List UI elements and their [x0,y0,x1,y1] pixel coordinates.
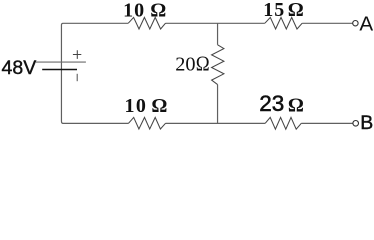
svg-text:Ω: Ω [288,0,304,21]
svg-text:Ω: Ω [196,53,210,76]
resistor R4 zigzag 10 ohm bottom-left [129,117,166,129]
terminal A circle [353,21,358,26]
svg-text:10: 10 [123,0,145,21]
wire bottom from R5 to terminal B [301,122,352,124]
wire top from R2 to terminal A [302,22,352,24]
wire bottom between R4 and R5 through node [166,122,266,124]
resistor R5 zigzag 23 ohm bottom-right [265,117,301,129]
battery V1 bottom plate (negative, short thick) [42,69,77,71]
svg-text:10: 10 [125,95,148,117]
svg-text:A: A [359,12,373,35]
wire top from battery to R1 [63,22,128,24]
wire bottom from battery to R4 [63,122,129,124]
svg-text:Ω: Ω [150,0,166,21]
wire top between R1 and R2 through node [166,22,265,24]
wire corner bottom-left [61,121,63,123]
terminal B circle [353,121,359,127]
resistor R3 zigzag 20 ohm middle vertical [212,45,224,85]
wire middle vertical lower lead [217,85,219,124]
svg-text:Ω: Ω [288,94,304,116]
wire left vertical through battery [60,25,62,121]
battery V1 top plate (positive, long) [36,61,86,63]
wire corner top-left [61,23,63,25]
resistor R1 zigzag 10 ohm top-left [128,17,165,29]
svg-text:20: 20 [175,54,195,76]
wire middle vertical upper lead [217,23,219,45]
svg-text:23: 23 [259,91,284,116]
svg-text:Ω: Ω [151,95,167,117]
resistor R2 zigzag 15 ohm top-right [265,17,302,29]
svg-text:B: B [360,112,373,134]
svg-text:15: 15 [263,0,285,21]
battery minus tick [76,74,78,81]
svg-text:48V: 48V [2,57,37,79]
battery plus sign [73,50,81,59]
